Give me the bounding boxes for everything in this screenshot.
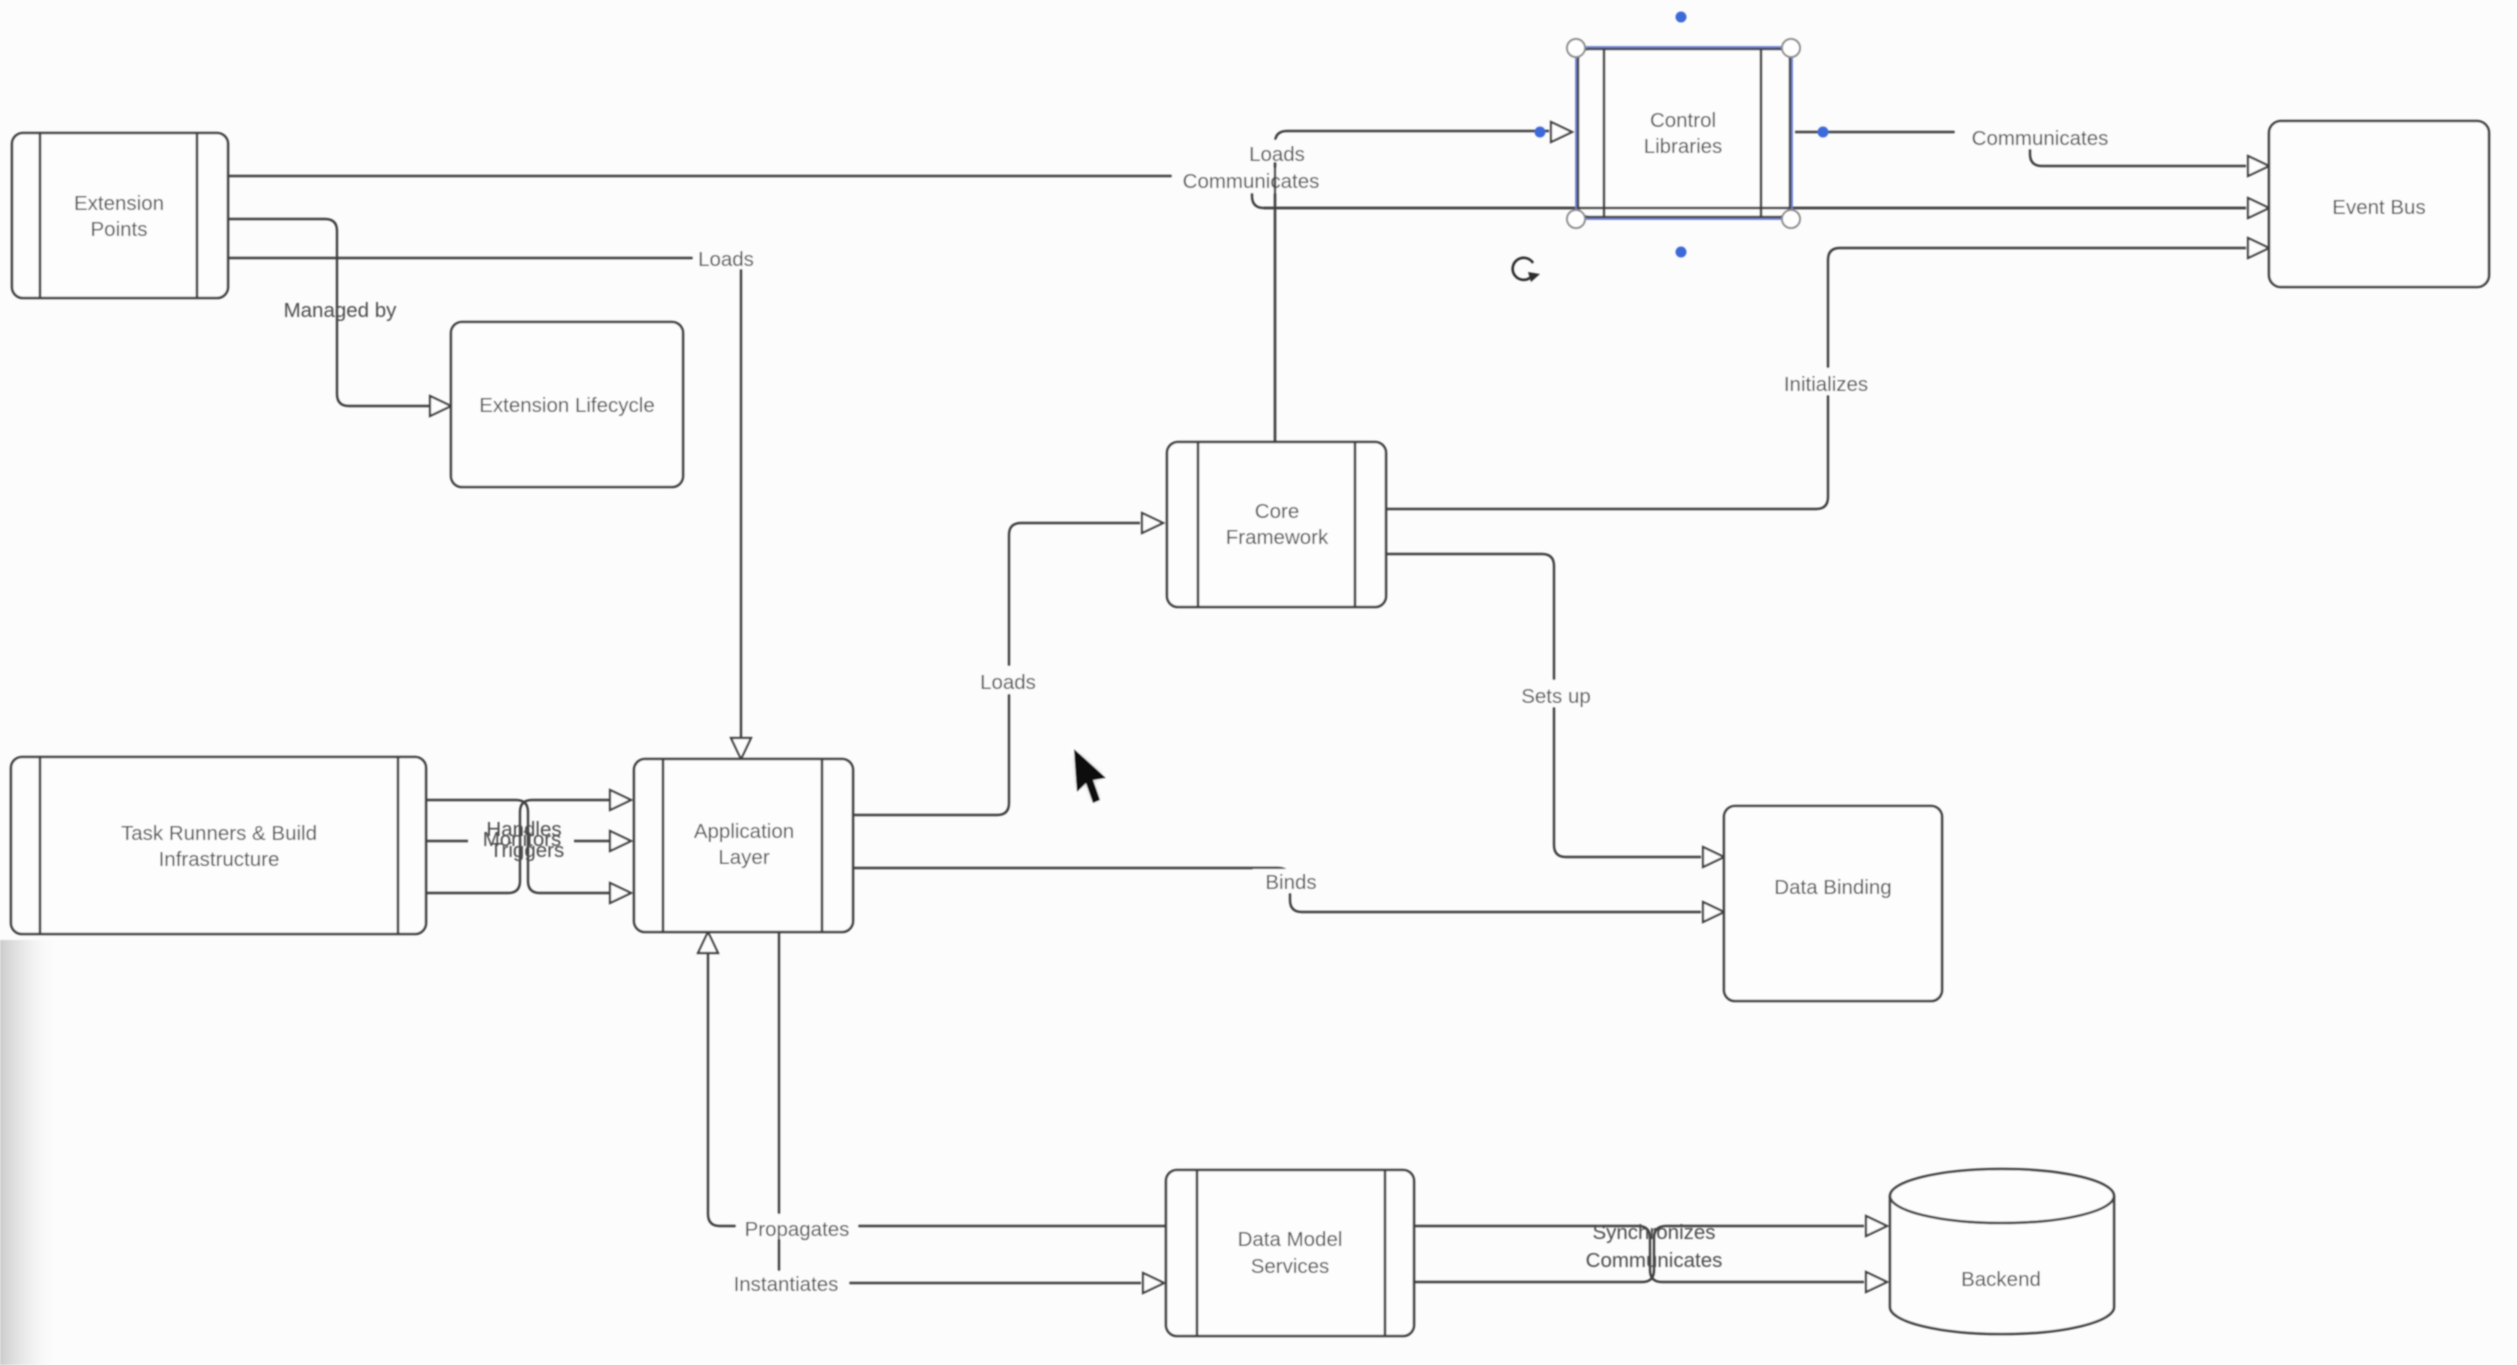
svg-text:Communicates: Communicates	[1586, 1249, 1723, 1272]
svg-text:Data Model: Data Model	[1238, 1228, 1343, 1251]
svg-text:Communicates: Communicates	[1183, 170, 1320, 193]
svg-text:Event Bus: Event Bus	[2332, 196, 2425, 219]
svg-text:Binds: Binds	[1265, 871, 1316, 894]
svg-text:Core: Core	[1255, 500, 1299, 523]
svg-text:Instantiates: Instantiates	[734, 1273, 839, 1296]
svg-text:Triggers: Triggers	[490, 839, 564, 862]
svg-text:Data Binding: Data Binding	[1774, 876, 1891, 899]
svg-text:Layer: Layer	[718, 846, 769, 869]
svg-text:Task Runners & Build: Task Runners & Build	[121, 822, 317, 845]
svg-text:Initializes: Initializes	[1784, 373, 1868, 396]
svg-text:Control: Control	[1650, 109, 1716, 132]
svg-text:Extension: Extension	[74, 192, 164, 215]
svg-text:Framework: Framework	[1226, 526, 1329, 549]
svg-text:Extension Lifecycle: Extension Lifecycle	[479, 394, 654, 417]
svg-text:Libraries: Libraries	[1644, 135, 1723, 158]
svg-text:Sets up: Sets up	[1521, 685, 1591, 708]
svg-text:Loads: Loads	[1249, 143, 1305, 166]
svg-text:Application: Application	[694, 820, 794, 843]
svg-text:Infrastructure: Infrastructure	[159, 848, 280, 871]
svg-text:Propagates: Propagates	[745, 1218, 850, 1241]
svg-text:Services: Services	[1251, 1255, 1330, 1278]
svg-text:Communicates: Communicates	[1972, 127, 2109, 150]
svg-text:Managed by: Managed by	[284, 299, 398, 322]
svg-text:Loads: Loads	[980, 671, 1036, 694]
svg-text:Synchronizes: Synchronizes	[1592, 1221, 1715, 1244]
svg-text:Loads: Loads	[698, 248, 754, 271]
svg-text:Backend: Backend	[1961, 1268, 2041, 1291]
svg-text:Points: Points	[91, 218, 148, 241]
